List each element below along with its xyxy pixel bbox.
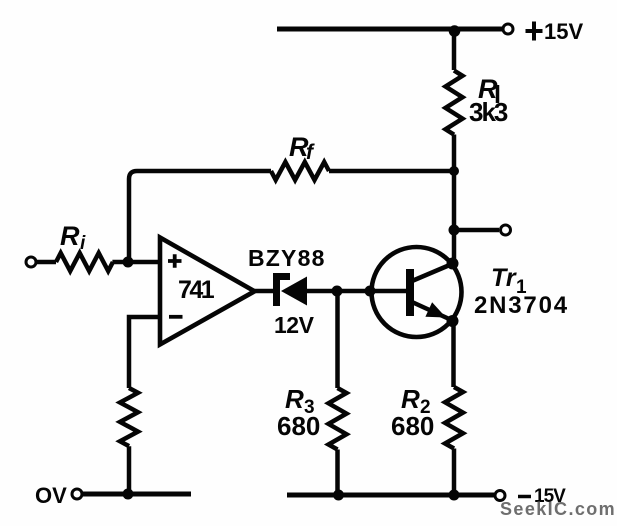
svg-text:Tr: Tr — [491, 264, 517, 292]
op-amp minus input symbol — [169, 315, 183, 319]
wire resistor to 0V rail — [127, 446, 132, 494]
wire R3 drop — [335, 291, 340, 388]
transistor Tr1 emitter lead — [412, 302, 453, 321]
node base junction on circle — [365, 286, 376, 297]
node collector junction — [447, 258, 459, 270]
wire output stub — [454, 228, 499, 233]
svg-text:2N3704: 2N3704 — [474, 292, 569, 319]
op-amp plus input symbol — [168, 254, 182, 268]
node input junction — [123, 257, 134, 268]
transistor Tr1 base bar — [406, 269, 414, 316]
svg-text:SeekIC.com: SeekIC.com — [500, 499, 616, 519]
resistor R1 — [446, 71, 463, 135]
wire op-amp output to zener — [254, 289, 273, 294]
zener diode BZY88 anode triangle — [281, 277, 307, 306]
terminal -15V — [495, 491, 505, 501]
wire R3 to -15V rail — [335, 450, 340, 496]
wire main vertical rail mid — [452, 135, 457, 262]
terminal output — [501, 225, 511, 235]
svg-text:12V: 12V — [274, 312, 315, 338]
wire feedback left segment with corner — [129, 171, 271, 262]
svg-text:i: i — [80, 233, 86, 254]
node R3 tap — [332, 286, 343, 297]
label +15V — [526, 22, 543, 41]
svg-text:R: R — [285, 384, 304, 414]
op-amp 741 triangle — [160, 238, 255, 345]
resistor R3 — [329, 388, 347, 449]
svg-text:OV: OV — [35, 483, 67, 508]
label -15V minus sign — [518, 495, 531, 499]
wire 0V rail — [83, 492, 192, 497]
node output stub junction — [449, 225, 460, 236]
svg-text:BZY88: BZY88 — [248, 245, 326, 271]
resistor Ri — [56, 253, 113, 271]
wire Ri to op-amp plus input — [112, 260, 160, 265]
terminal input — [26, 257, 36, 267]
svg-text:741: 741 — [178, 276, 215, 304]
transistor Tr1 collector lead — [412, 264, 452, 281]
resistor R2 — [445, 387, 463, 448]
transistor Tr1 circle — [372, 247, 462, 337]
node 0V junction — [123, 489, 134, 500]
wire zener to transistor base — [306, 289, 407, 294]
node Rf junction — [449, 166, 459, 176]
wire input to Ri — [37, 260, 57, 265]
node top rail junction — [449, 25, 461, 37]
wire feedback Rf right segment — [329, 169, 454, 174]
transistor Tr1 emitter arrowhead — [425, 302, 446, 317]
wire -15V rail — [287, 493, 494, 498]
svg-text:680: 680 — [277, 411, 320, 441]
node R3 bottom junction — [333, 490, 344, 501]
wire emitter to R2 — [451, 322, 456, 387]
svg-text:f: f — [306, 141, 315, 164]
wire main vertical rail top — [452, 29, 457, 70]
svg-text:15V: 15V — [544, 19, 583, 44]
svg-text:3k3: 3k3 — [469, 97, 508, 127]
terminal 0V — [72, 489, 82, 499]
svg-text:R: R — [401, 384, 420, 414]
svg-text:680: 680 — [391, 411, 434, 441]
svg-text:R: R — [60, 221, 80, 251]
resistor Rf — [271, 162, 329, 180]
resistor minus-input to 0V (unlabeled) — [120, 388, 138, 446]
node R2 bottom junction — [449, 490, 460, 501]
wire top +15V rail — [277, 27, 502, 32]
zener diode BZY88 cathode bar — [277, 277, 291, 307]
terminal +15V — [503, 24, 513, 34]
wire R2 to -15V rail — [452, 449, 457, 496]
node emitter junction — [447, 315, 459, 327]
wire op-amp minus input — [129, 317, 160, 388]
